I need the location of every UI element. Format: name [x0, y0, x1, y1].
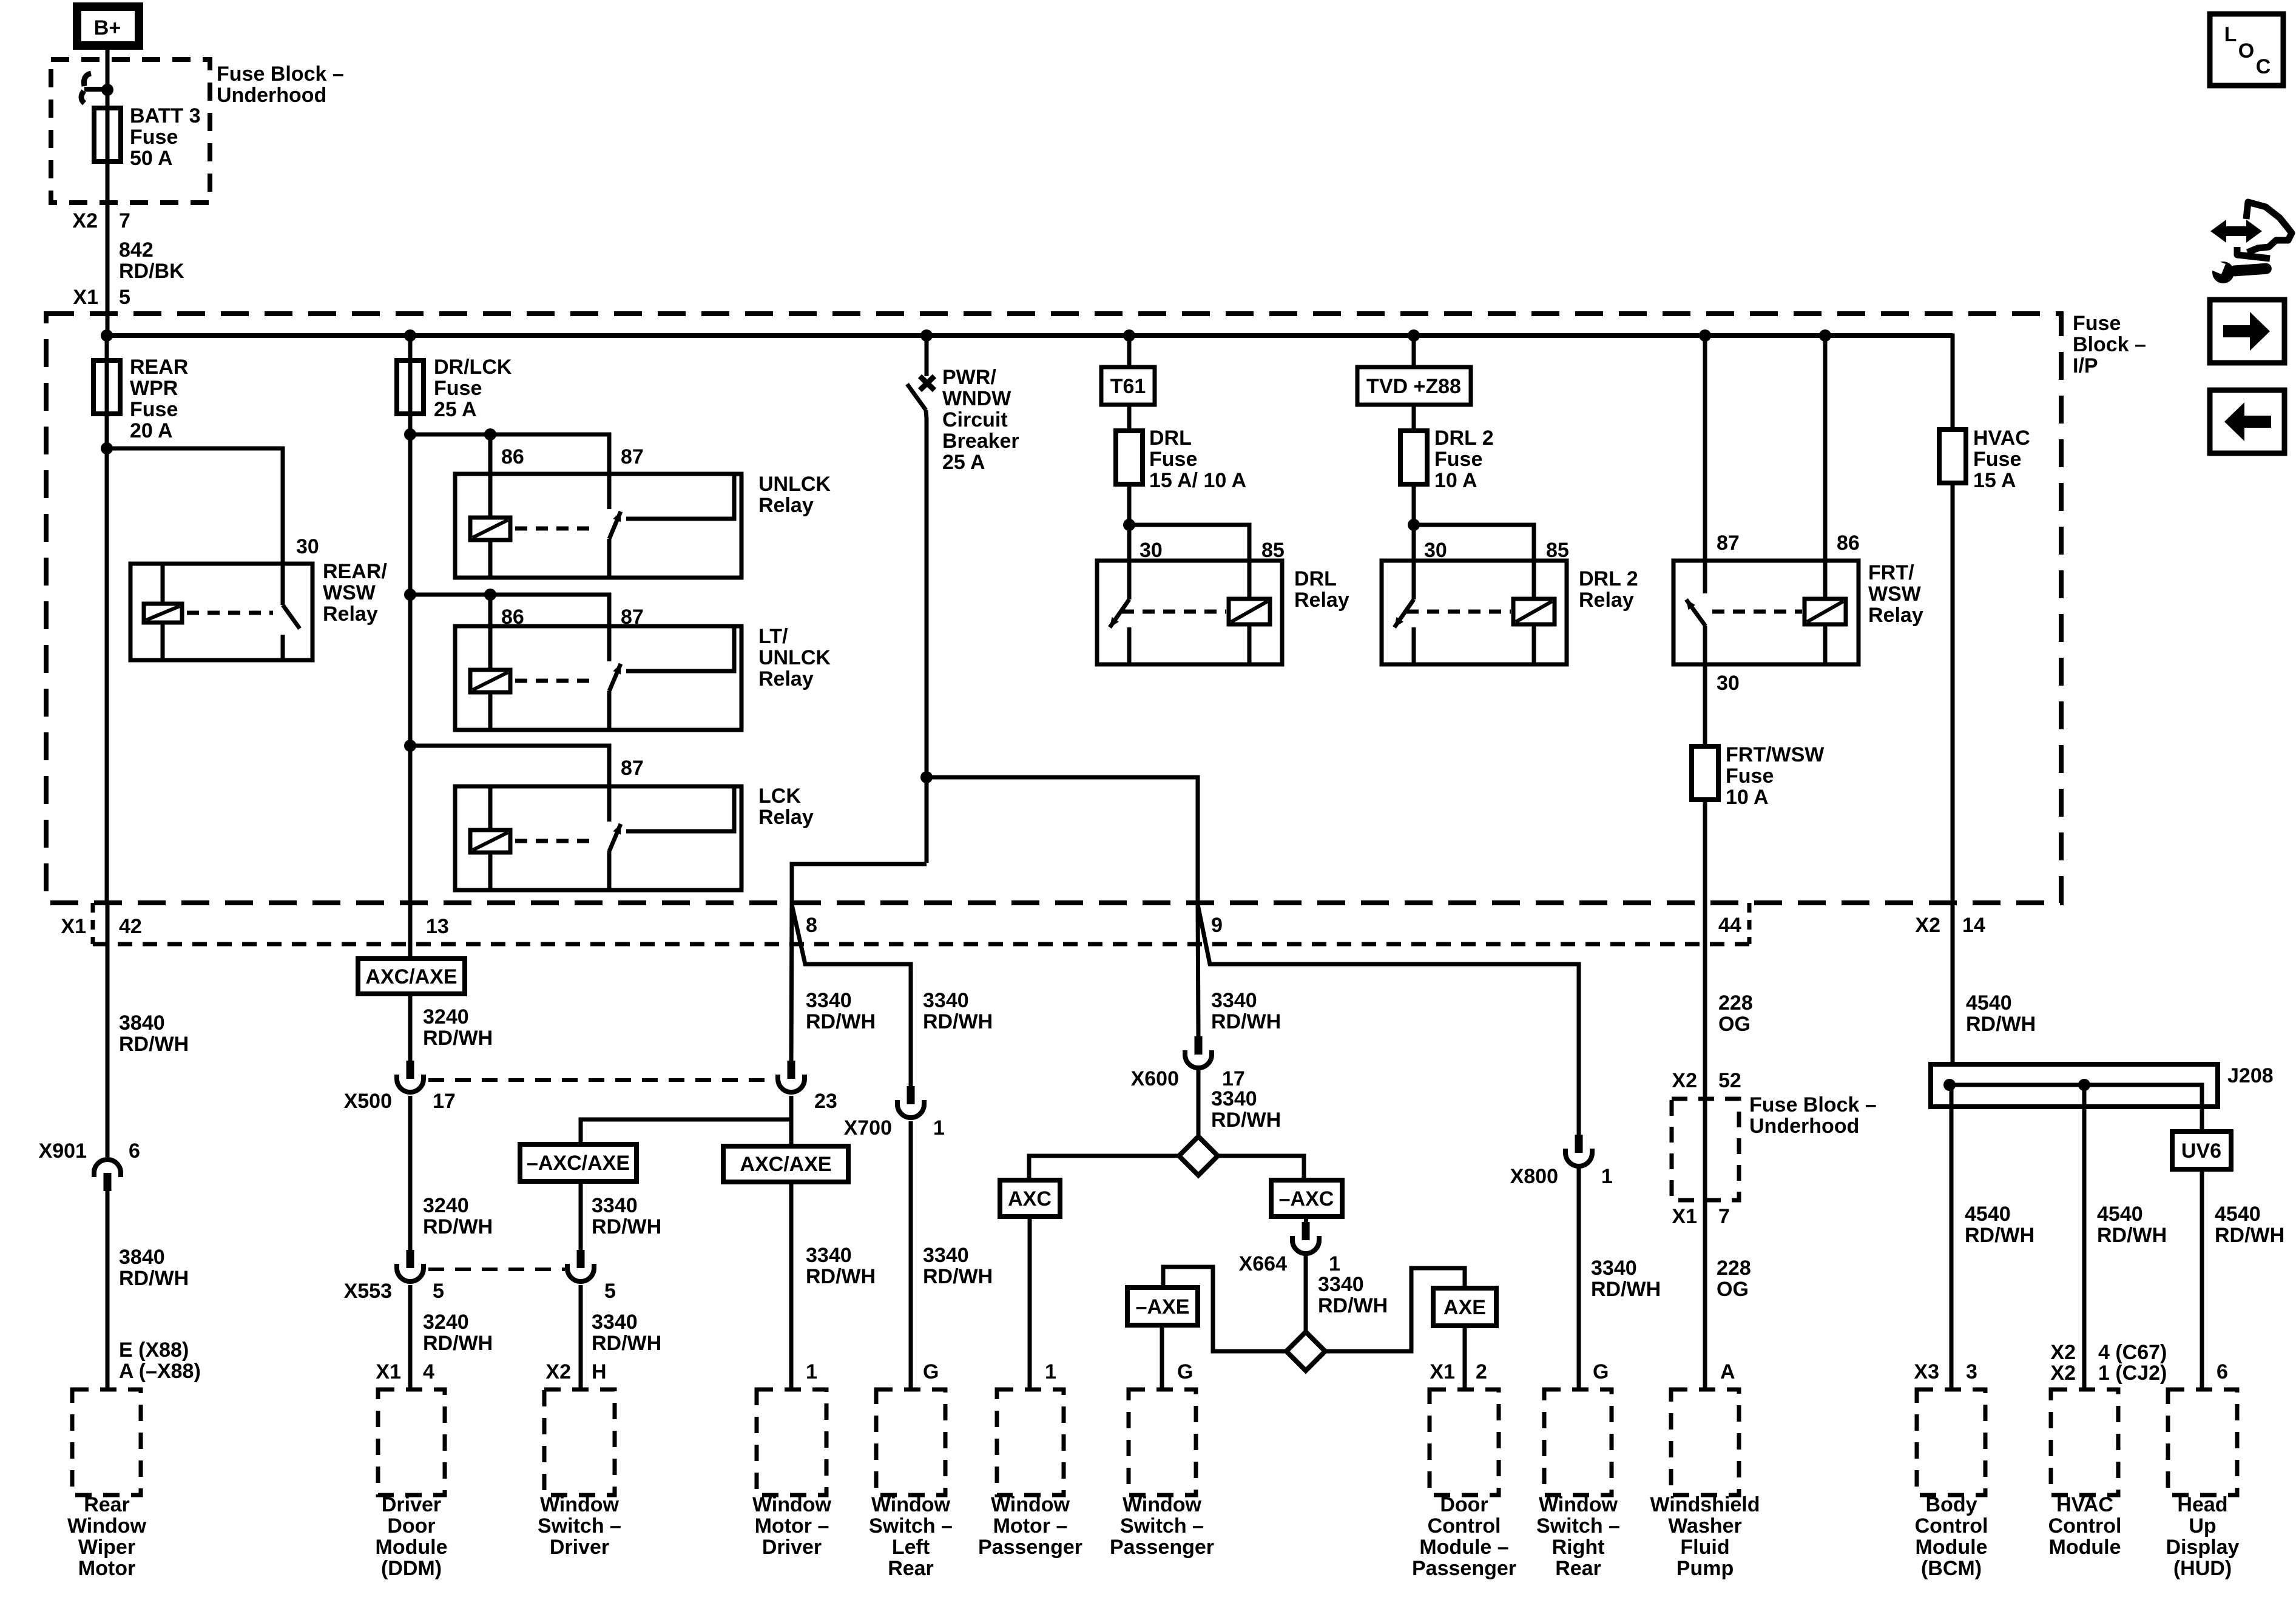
- icon arrow left box: [2210, 390, 2284, 453]
- svg-text:X2: X2: [2050, 1341, 2076, 1364]
- svg-text:X553: X553: [344, 1280, 392, 1303]
- wire AXE to door control module: [1463, 1326, 1467, 1389]
- svg-text:X800: X800: [1510, 1165, 1558, 1188]
- label Fuse Block - Underhood (top): [217, 62, 344, 107]
- wire bus to FRT/WSW pin 87: [1703, 336, 1707, 561]
- svg-text:5: 5: [433, 1280, 444, 1303]
- junction DRL 2 relay feed: [1408, 519, 1420, 531]
- svg-text:3340: 3340: [1211, 989, 1257, 1012]
- svg-text:Pump: Pump: [1676, 1557, 1734, 1580]
- label Window Switch - Left Rear: [869, 1493, 953, 1580]
- svg-text:1: 1: [1045, 1360, 1056, 1383]
- svg-text:3: 3: [1966, 1360, 1977, 1383]
- svg-text:G: G: [1177, 1360, 1193, 1383]
- wire T61 to DRL fuse: [1127, 405, 1132, 431]
- svg-text:1: 1: [806, 1360, 817, 1383]
- svg-text:Control: Control: [1915, 1514, 1988, 1538]
- relay LCK switch output line: [626, 786, 734, 831]
- svg-text:85: 85: [1261, 539, 1285, 562]
- wire bus to FRT/WSW pin 86: [1823, 336, 1828, 561]
- svg-text:X2: X2: [1672, 1069, 1697, 1092]
- relay DRL 2 coil-switch dashed link: [1406, 610, 1511, 614]
- wire TVD to DRL 2 fuse: [1412, 405, 1416, 431]
- svg-text:X2: X2: [1915, 914, 1940, 937]
- svg-text:Washer: Washer: [1668, 1514, 1742, 1538]
- svg-text:87: 87: [621, 757, 644, 780]
- svg-text:X664: X664: [1239, 1252, 1287, 1275]
- connector box Driver Door Module: [378, 1389, 445, 1495]
- pin labels 30 | 85 (DRL): [1140, 539, 1285, 562]
- svg-text:T61: T61: [1110, 375, 1146, 398]
- label Body Control Module (BCM): [1915, 1493, 1988, 1580]
- pin label 30 (REAR/WSW relay): [296, 535, 319, 558]
- svg-text:A: A: [1720, 1360, 1735, 1383]
- relay LT/UNLCK box: [455, 626, 741, 730]
- pin label X1 | 42: [61, 915, 141, 938]
- icon part/wrench with double arrow: [2210, 202, 2292, 283]
- label Windshield Washer Fluid Pump: [1650, 1493, 1760, 1580]
- label X700 | 1: [844, 1116, 945, 1139]
- svg-text:Passenger: Passenger: [978, 1536, 1082, 1559]
- main bus wire from BATT 3 feed across fuse block I/P: [107, 333, 1953, 338]
- relay DRL 2 box: [1382, 561, 1567, 664]
- svg-text:X901: X901: [39, 1139, 87, 1163]
- connector box Head Up Display: [2168, 1389, 2237, 1495]
- wire X600 to splice: [1197, 1069, 1201, 1138]
- svg-text:–AXC: –AXC: [1279, 1187, 1334, 1210]
- svg-text:Display: Display: [2166, 1536, 2240, 1559]
- svg-text:Fluid: Fluid: [1680, 1536, 1729, 1559]
- connector box Door Control Module Passenger: [1430, 1389, 1499, 1495]
- wire label 842 RD/BK: [119, 238, 184, 283]
- wire 9 to X600: [1198, 903, 1198, 1038]
- svg-text:3340: 3340: [806, 1244, 852, 1267]
- relay UNLCK feed wire: [404, 428, 609, 509]
- label FRT/WSW Relay: [1868, 561, 1923, 627]
- svg-text:50 A: 50 A: [130, 147, 173, 170]
- fuse FRT/WSW 10 A: [1692, 746, 1718, 800]
- svg-text:Relay: Relay: [758, 806, 814, 829]
- label REAR/WSW Relay: [323, 560, 387, 626]
- label DRL 2 Relay: [1579, 567, 1638, 612]
- net label box AXC/AXE (driver door): [358, 959, 465, 994]
- net label box -AXC/AXE: [520, 1144, 636, 1181]
- pin label X1 | 7: [1672, 1205, 1730, 1228]
- connector X700 pin 1: [897, 1086, 924, 1118]
- svg-text:RD/WH: RD/WH: [592, 1332, 661, 1355]
- svg-text:228: 228: [1717, 1257, 1751, 1280]
- label Fuse Block - Underhood (lower): [1749, 1093, 1877, 1138]
- svg-text:Passenger: Passenger: [1412, 1557, 1516, 1580]
- svg-text:10 A: 10 A: [1434, 469, 1477, 492]
- svg-text:Fuse: Fuse: [1149, 448, 1197, 471]
- I/P connector face dotted line: [93, 903, 1754, 944]
- pin label X1 | 13: [426, 915, 449, 938]
- svg-text:3340: 3340: [592, 1311, 638, 1334]
- svg-text:3340: 3340: [1591, 1257, 1637, 1280]
- svg-text:3340: 3340: [592, 1194, 638, 1217]
- net label box -AXE: [1127, 1288, 1198, 1325]
- svg-text:8: 8: [806, 914, 817, 937]
- connector box Window Motor Passenger: [997, 1389, 1064, 1495]
- svg-text:Body: Body: [1926, 1493, 1977, 1516]
- pin label 9: [1211, 914, 1223, 937]
- label Rear Window Wiper Motor: [67, 1493, 147, 1580]
- bus junction at REAR WPR column: [101, 329, 113, 342]
- svg-text:X1: X1: [1672, 1205, 1697, 1228]
- pin labels 30 | 85 (DRL 2): [1424, 539, 1569, 562]
- wire label 4540 RD/WH (HVAC CM): [2097, 1203, 2167, 1247]
- relay LCK switch blade: [609, 822, 624, 890]
- svg-text:14: 14: [1962, 914, 1985, 937]
- wire splice to -AXC: [1218, 1156, 1304, 1180]
- svg-text:Head: Head: [2177, 1493, 2227, 1516]
- svg-text:Control: Control: [1428, 1514, 1501, 1538]
- svg-text:RD/WH: RD/WH: [1966, 1013, 2036, 1036]
- wire 9 branch to X800: [1198, 905, 1579, 1136]
- svg-text:RD/WH: RD/WH: [2097, 1224, 2167, 1247]
- svg-text:25 A: 25 A: [434, 398, 477, 421]
- label Window Switch - Driver: [538, 1493, 621, 1559]
- svg-text:AXC/AXE: AXC/AXE: [365, 965, 457, 988]
- svg-text:DRL: DRL: [1149, 427, 1192, 450]
- svg-text:6: 6: [2217, 1360, 2228, 1383]
- wire to window switch driver: [579, 1285, 583, 1389]
- svg-text:Passenger: Passenger: [1110, 1536, 1214, 1559]
- fuse DRL 2 10 A: [1400, 431, 1427, 484]
- wire to DRL 2 relay pin 85: [1414, 525, 1534, 561]
- relay REAR/WSW coil-switch dashed link: [187, 611, 273, 615]
- connector box Window Motor Driver: [757, 1389, 826, 1495]
- wire label 3340 RD/WH (lower driver switch): [592, 1311, 661, 1355]
- connector X600 pin 17: [1185, 1036, 1212, 1068]
- svg-text:Left: Left: [892, 1536, 930, 1559]
- svg-text:Rear: Rear: [888, 1557, 934, 1580]
- svg-text:X600: X600: [1131, 1067, 1179, 1090]
- svg-text:X1: X1: [1430, 1360, 1455, 1383]
- relay FRT/WSW coil: [1805, 561, 1846, 664]
- wire label 3240 RD/WH (2): [423, 1194, 493, 1238]
- svg-text:7: 7: [1718, 1205, 1730, 1228]
- svg-text:Wiper: Wiper: [78, 1536, 135, 1559]
- relay DRL 2 coil: [1513, 561, 1555, 664]
- fuse BATT 3 50 A: [94, 108, 121, 161]
- svg-text:O: O: [2238, 39, 2254, 62]
- svg-text:FRT/WSW: FRT/WSW: [1726, 743, 1825, 766]
- wire label 3840 RD/WH (upper): [119, 1011, 189, 1056]
- svg-text:87: 87: [1717, 532, 1740, 555]
- svg-text:Motor –: Motor –: [993, 1514, 1068, 1538]
- wire AXC/AXE to X500: [408, 994, 413, 1062]
- wire X700 to window switch left rear: [909, 1121, 913, 1389]
- svg-text:Module: Module: [376, 1536, 448, 1559]
- svg-text:REAR/: REAR/: [323, 560, 387, 583]
- svg-text:J208: J208: [2227, 1064, 2274, 1087]
- svg-text:Driver: Driver: [382, 1493, 441, 1516]
- svg-text:9: 9: [1211, 914, 1223, 937]
- wire HVAC fuse to X2-14 exit: [1951, 483, 1955, 1064]
- svg-text:Window: Window: [871, 1493, 951, 1516]
- svg-text:LCK: LCK: [758, 785, 801, 808]
- svg-text:HVAC: HVAC: [2056, 1493, 2113, 1516]
- relay FRT/WSW coil-switch dashed link: [1712, 610, 1802, 614]
- svg-text:Breaker: Breaker: [942, 430, 1019, 453]
- wire pin23 down to AXC/AXE (motor driver): [789, 1096, 794, 1146]
- svg-text:Right: Right: [1552, 1536, 1605, 1559]
- svg-text:UNLCK: UNLCK: [758, 473, 831, 496]
- svg-text:86: 86: [501, 445, 524, 468]
- svg-text:86: 86: [501, 606, 524, 629]
- svg-text:4540: 4540: [2215, 1203, 2261, 1226]
- svg-text:X2: X2: [2050, 1362, 2076, 1385]
- wire label 3340 RD/WH (motor driver): [806, 989, 876, 1033]
- pin label X1 | 5: [73, 286, 130, 309]
- fuse block underhood small dashed box: [1672, 1099, 1739, 1200]
- pin label X2 | 52: [1672, 1069, 1741, 1092]
- svg-text:RD/WH: RD/WH: [423, 1215, 493, 1238]
- wire label 3340 RD/WH (left rear): [923, 989, 993, 1033]
- svg-text:OG: OG: [1718, 1013, 1751, 1036]
- pin label 44: [1718, 914, 1741, 937]
- net label box AXE: [1433, 1288, 1496, 1326]
- wire -AXE to window switch passenger: [1160, 1325, 1164, 1389]
- wire FRT/WSW relay to fuse: [1703, 664, 1707, 746]
- svg-text:A (–X88): A (–X88): [119, 1360, 201, 1383]
- connector box Windshield Washer Fluid Pump: [1671, 1389, 1739, 1495]
- junction DRL relay feed: [1123, 519, 1135, 531]
- connector X800 pin 1: [1565, 1135, 1592, 1166]
- junction B+ / clip: [101, 84, 113, 96]
- svg-text:RD/BK: RD/BK: [119, 260, 184, 283]
- bus junction at DRL column: [1123, 329, 1135, 342]
- label X500 | 17: [344, 1090, 456, 1113]
- wire X500-17 to X553: [408, 1096, 413, 1251]
- icon arrow right box: [2210, 300, 2284, 363]
- svg-text:HVAC: HVAC: [1973, 427, 2030, 450]
- label DRL 2 Fuse 10 A: [1434, 427, 1494, 492]
- wire splice to AXC: [1029, 1156, 1179, 1180]
- wire X800 to window switch right rear: [1577, 1167, 1581, 1389]
- wire label 3340 RD/WH (driver switch): [592, 1194, 661, 1238]
- svg-text:RD/WH: RD/WH: [119, 1033, 189, 1056]
- svg-text:85: 85: [1546, 539, 1569, 562]
- svg-text:20 A: 20 A: [130, 419, 173, 442]
- net label box -AXC: [1271, 1180, 1342, 1217]
- relay LT/UNLCK feed wire: [404, 589, 609, 661]
- svg-text:3340: 3340: [1318, 1273, 1364, 1296]
- connector box Window Switch Right Rear: [1544, 1389, 1612, 1495]
- relay DRL 2 switch: [1391, 561, 1414, 664]
- label FRT/WSW Fuse 10 A: [1726, 743, 1825, 809]
- bus junction at DRL 2 column: [1408, 329, 1420, 342]
- svg-text:Relay: Relay: [1868, 604, 1923, 627]
- connector box Window Switch Passenger: [1129, 1389, 1196, 1495]
- svg-text:Underhood: Underhood: [217, 84, 326, 107]
- svg-text:Window: Window: [540, 1493, 620, 1516]
- svg-text:–AXE: –AXE: [1136, 1295, 1190, 1318]
- svg-text:3840: 3840: [119, 1246, 165, 1269]
- svg-text:Motor –: Motor –: [755, 1514, 829, 1538]
- relay LCK box: [455, 786, 741, 890]
- wire DRL 2 fuse to relay: [1412, 484, 1416, 561]
- label 5 (switch side): [604, 1280, 616, 1303]
- label HVAC Control Module: [2048, 1493, 2122, 1559]
- svg-text:30: 30: [1717, 672, 1740, 695]
- pin labels 87 | 86 (FRT/WSW): [1717, 532, 1860, 555]
- wire label 3840 RD/WH (lower): [119, 1246, 189, 1290]
- svg-text:X3: X3: [1914, 1360, 1939, 1383]
- svg-text:DRL: DRL: [1294, 567, 1337, 590]
- svg-text:3340: 3340: [806, 989, 852, 1012]
- pin label G (switch passenger): [1177, 1360, 1193, 1383]
- label DRL Relay: [1294, 567, 1349, 612]
- svg-text:Relay: Relay: [323, 603, 378, 626]
- relay DRL coil: [1229, 561, 1270, 664]
- wire label 3340 RD/WH (right rear): [1591, 1257, 1661, 1301]
- icon LOC box: [2210, 14, 2283, 86]
- svg-text:Window: Window: [991, 1493, 1070, 1516]
- relay REAR/WSW coil: [144, 564, 182, 660]
- svg-text:X2: X2: [72, 209, 98, 232]
- svg-text:42: 42: [119, 915, 142, 938]
- svg-text:7: 7: [119, 209, 130, 232]
- svg-text:(BCM): (BCM): [1921, 1557, 1982, 1580]
- svg-text:B+: B+: [94, 16, 121, 39]
- svg-text:Relay: Relay: [758, 494, 814, 517]
- svg-text:RD/WH: RD/WH: [2215, 1224, 2284, 1247]
- svg-text:5: 5: [604, 1280, 616, 1303]
- wire X553 to DDM: [408, 1285, 413, 1389]
- relay LT/UNLCK switch blade: [609, 662, 624, 730]
- svg-text:3240: 3240: [423, 1194, 469, 1217]
- svg-text:15 A: 15 A: [1973, 469, 2016, 492]
- junction REAR WPR / relay feed: [101, 442, 113, 454]
- relay LT/UNLCK coil-switch dashed link: [515, 679, 598, 683]
- svg-text:RD/WH: RD/WH: [806, 1010, 876, 1033]
- svg-text:OG: OG: [1717, 1278, 1749, 1301]
- svg-text:25 A: 25 A: [942, 451, 985, 474]
- svg-text:Window: Window: [752, 1493, 832, 1516]
- label BATT 3 Fuse 50 A: [130, 104, 200, 170]
- svg-text:3240: 3240: [423, 1311, 469, 1334]
- svg-text:PWR/: PWR/: [942, 366, 996, 389]
- wire pin 8 exit: [792, 777, 927, 903]
- relay UNLCK box: [455, 474, 741, 578]
- pin label A (washer pump): [1720, 1360, 1735, 1383]
- svg-text:C: C: [2256, 55, 2271, 78]
- label UNLCK Relay: [758, 473, 831, 517]
- label Driver Door Module (DDM): [376, 1493, 448, 1580]
- J208 junction (HVAC CM tap): [2078, 1079, 2090, 1091]
- svg-text:(DDM): (DDM): [381, 1557, 442, 1580]
- svg-text:DR/LCK: DR/LCK: [434, 356, 512, 379]
- svg-text:RD/WH: RD/WH: [1591, 1278, 1661, 1301]
- wire to DRL relay pin 85: [1129, 525, 1249, 561]
- svg-text:Relay: Relay: [758, 667, 814, 690]
- pin label X2 | 7: [72, 209, 130, 232]
- label DR/LCK Fuse 25 A: [434, 356, 512, 421]
- label Window Motor - Passenger: [978, 1493, 1082, 1559]
- relay FRT/WSW switch: [1683, 561, 1706, 664]
- wire -AXC/AXE to X553 partner: [579, 1181, 583, 1251]
- wire DR/LCK column (bus to X1-13 exit): [408, 336, 413, 903]
- svg-text:Control: Control: [2048, 1514, 2122, 1538]
- wire DRL fuse to relay: [1127, 484, 1132, 561]
- svg-text:Rear: Rear: [84, 1493, 130, 1516]
- wire REAR WPR column (bus to X1-42 exit): [105, 336, 109, 903]
- svg-text:3840: 3840: [119, 1011, 165, 1035]
- svg-text:Fuse: Fuse: [130, 126, 178, 149]
- wire bus corner to HVAC fuse: [1950, 336, 1953, 430]
- wire FRT/WSW fuse to pin 44 exit: [1703, 800, 1707, 944]
- bus junction at circuit breaker column: [920, 329, 933, 342]
- svg-text:G: G: [1593, 1360, 1609, 1383]
- connector box HVAC Control Module: [2051, 1389, 2118, 1495]
- svg-text:842: 842: [119, 238, 154, 262]
- relay UNLCK switch output line: [626, 474, 734, 519]
- connector X500 pin 23: [778, 1061, 805, 1092]
- svg-text:Rear: Rear: [1555, 1557, 1601, 1580]
- svg-text:RD/WH: RD/WH: [423, 1027, 493, 1050]
- svg-text:1: 1: [1601, 1165, 1613, 1188]
- circuit breaker PWR/WNDW contact X: [920, 376, 934, 390]
- label Fuse Block - I/P: [2073, 312, 2146, 377]
- svg-text:4 (C67): 4 (C67): [2098, 1341, 2167, 1364]
- svg-text:3340: 3340: [923, 1244, 969, 1267]
- wire label 3340 RD/WH (lower left rear): [923, 1244, 993, 1288]
- svg-text:X1: X1: [61, 915, 86, 938]
- svg-text:Driver: Driver: [762, 1536, 822, 1559]
- net label box AXC: [1000, 1180, 1060, 1217]
- net label box AXC/AXE (motor driver): [723, 1146, 848, 1182]
- pin labels X2 | 4 (C67), X2 | 1 (CJ2): [2050, 1341, 2167, 1364]
- svg-text:228: 228: [1718, 991, 1753, 1014]
- fuse block I/P dashed box: [46, 314, 2061, 903]
- label LCK Relay: [758, 785, 814, 829]
- net label box T61: [1101, 367, 1155, 405]
- pin label X1 | 2: [1430, 1360, 1487, 1383]
- svg-text:Underhood: Underhood: [1749, 1115, 1859, 1138]
- wire label 3340 RD/WH (below X600): [1211, 1087, 1281, 1132]
- label X664 | 1: [1239, 1252, 1340, 1275]
- svg-text:RD/WH: RD/WH: [592, 1215, 661, 1238]
- wire UV6 to HUD: [2200, 1169, 2204, 1389]
- splice pack J208 box: [1931, 1064, 2218, 1107]
- label HVAC Fuse 15 A: [1973, 427, 2030, 492]
- svg-text:Switch –: Switch –: [538, 1514, 621, 1538]
- svg-text:Motor: Motor: [78, 1557, 135, 1580]
- wire 44 to washer pump: [1703, 944, 1707, 1389]
- wire AXC to window motor passenger: [1028, 1217, 1032, 1389]
- svg-text:Driver: Driver: [550, 1536, 609, 1559]
- pin label X2 | H: [545, 1360, 606, 1383]
- svg-text:4540: 4540: [2097, 1203, 2143, 1226]
- svg-text:Door: Door: [1440, 1493, 1488, 1516]
- svg-text:FRT/: FRT/: [1868, 561, 1914, 584]
- wire 13 to AXC/AXE: [408, 903, 413, 959]
- wire X1-42 to rear wiper motor: [106, 903, 110, 1157]
- svg-text:RD/WH: RD/WH: [923, 1010, 993, 1033]
- svg-text:15 A/ 10 A: 15 A/ 10 A: [1149, 469, 1246, 492]
- connector X664 pin 1: [1292, 1222, 1319, 1254]
- pin label G (right rear): [1593, 1360, 1609, 1383]
- svg-text:Fuse: Fuse: [1973, 448, 2021, 471]
- svg-text:UNLCK: UNLCK: [758, 646, 831, 669]
- bus junction at FRT/WSW 86 column: [1819, 329, 1831, 342]
- fuse DRL 15A/10A: [1116, 431, 1143, 484]
- wire -AXC to X664: [1306, 1217, 1306, 1223]
- wire bus to T61: [1127, 336, 1132, 367]
